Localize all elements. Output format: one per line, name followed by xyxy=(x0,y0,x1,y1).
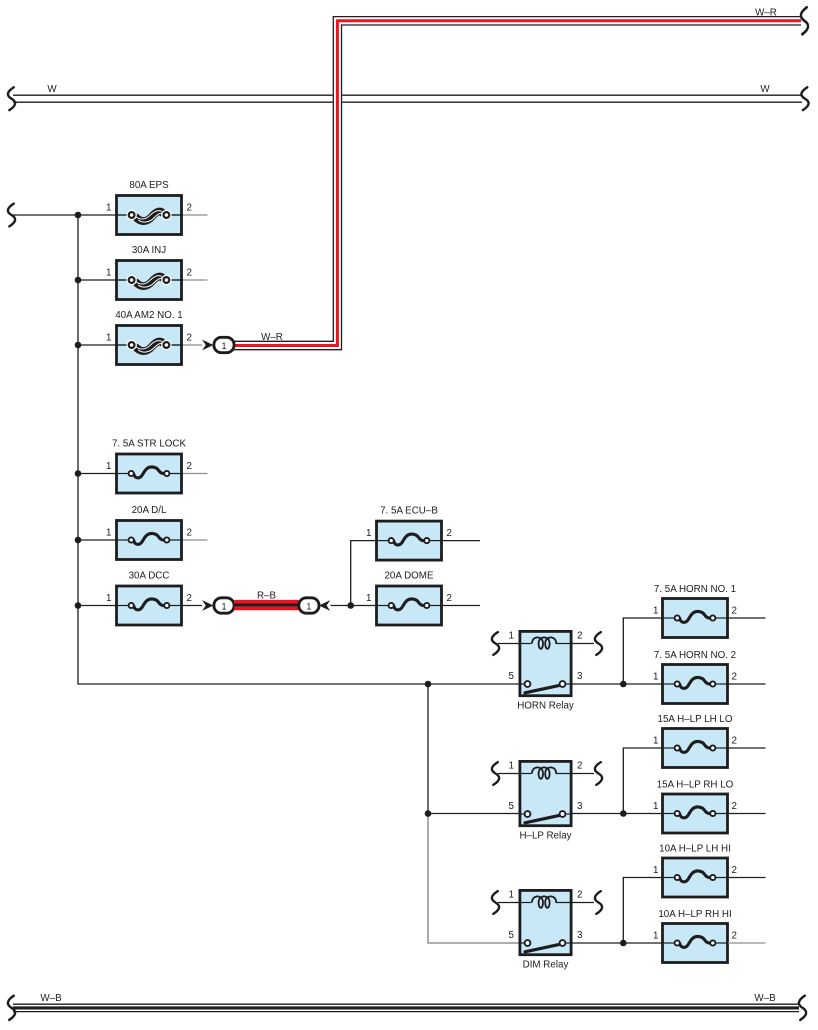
svg-text:3: 3 xyxy=(577,671,583,682)
svg-text:20A D/L: 20A D/L xyxy=(132,505,167,516)
svg-text:30A INJ: 30A INJ xyxy=(132,245,166,256)
svg-text:1: 1 xyxy=(106,203,111,214)
svg-text:1: 1 xyxy=(306,601,311,611)
break right of HORN relay coil xyxy=(595,632,602,655)
break left of DIM relay coil xyxy=(492,891,499,914)
wire R-B striped (red-black-red) xyxy=(234,602,299,609)
svg-text:1: 1 xyxy=(653,672,658,683)
svg-text:1: 1 xyxy=(653,801,658,812)
relay DIM Relay xyxy=(498,890,594,971)
svg-text:2: 2 xyxy=(187,593,192,604)
break left of W wire xyxy=(8,87,15,110)
wire W-R black outline inner xyxy=(234,25,801,350)
fuse 30A DCC xyxy=(106,571,202,626)
node junction feeder at H-LP row xyxy=(425,810,432,817)
fuse 7.5A HORN NO. 2 xyxy=(653,650,765,704)
svg-text:2: 2 xyxy=(732,931,737,942)
svg-text:2: 2 xyxy=(577,761,582,772)
wire AM2 row xyxy=(78,344,115,346)
svg-text:2: 2 xyxy=(187,203,192,214)
svg-text:30A DCC: 30A DCC xyxy=(129,571,170,582)
break left of EPS wire xyxy=(8,204,15,227)
node junction INJ row xyxy=(75,277,82,284)
svg-text:7. 5A ECU–B: 7. 5A ECU–B xyxy=(380,506,438,517)
break left of HORN relay coil xyxy=(492,632,499,655)
wire branch up to HORN NO.1 xyxy=(623,618,662,684)
fuse 15A H-LP LH LO xyxy=(653,714,765,768)
fuse 20A D/L xyxy=(106,505,207,560)
svg-text:1: 1 xyxy=(106,528,111,539)
fusible link 80A EPS xyxy=(106,180,207,235)
svg-text:1: 1 xyxy=(221,601,226,611)
svg-text:R–B: R–B xyxy=(257,591,277,602)
fuse 7.5A STR LOCK xyxy=(106,439,207,494)
svg-text:2: 2 xyxy=(577,890,582,901)
wire H-LP relay pin3 output xyxy=(573,813,663,815)
svg-text:2: 2 xyxy=(577,631,582,642)
connector splice oval 1 (W-R) xyxy=(214,337,234,352)
break left of H-LP relay coil xyxy=(492,762,499,785)
svg-text:H–LP Relay: H–LP Relay xyxy=(519,831,571,842)
svg-text:1: 1 xyxy=(106,461,111,472)
wire feeder vertical to H-LP relay xyxy=(427,684,429,814)
svg-text:15A H–LP LH LO: 15A H–LP LH LO xyxy=(658,714,733,725)
connector arrow out of splice (left-pointing) xyxy=(319,600,330,611)
svg-text:1: 1 xyxy=(653,865,658,876)
svg-text:W–R: W–R xyxy=(755,8,777,19)
node junction DIM fuse branch xyxy=(620,940,627,947)
svg-text:W–B: W–B xyxy=(754,993,776,1004)
wire from splice to DOME xyxy=(331,605,376,607)
node junction EPS row xyxy=(75,212,82,219)
fuse 20A DOME xyxy=(366,571,480,626)
svg-text:7. 5A HORN NO. 1: 7. 5A HORN NO. 1 xyxy=(654,584,736,595)
break right of W-R wire xyxy=(801,7,808,34)
svg-text:10A H–LP LH HI: 10A H–LP LH HI xyxy=(659,844,731,855)
svg-text:1: 1 xyxy=(653,931,658,942)
svg-text:1: 1 xyxy=(509,890,514,901)
node junction HORN fuse branch xyxy=(620,681,627,688)
node junction feeder at HORN row xyxy=(425,681,432,688)
svg-text:1: 1 xyxy=(106,593,111,604)
fusible link 30A INJ xyxy=(106,245,207,300)
node junction H-LP fuse branch xyxy=(620,810,627,817)
svg-text:2: 2 xyxy=(447,593,452,604)
connector splice oval 1 (R-B right) xyxy=(299,598,319,613)
svg-text:15A H–LP RH LO: 15A H–LP RH LO xyxy=(657,780,734,791)
wire W-B bottom bus xyxy=(13,1004,799,1011)
fuse 7.5A HORN NO. 1 xyxy=(653,584,765,638)
wire W-R red core xyxy=(234,21,801,346)
svg-text:2: 2 xyxy=(732,672,737,683)
connector arrow into splice (DCC output) xyxy=(202,600,213,611)
break left of W-B wire xyxy=(8,996,15,1020)
svg-text:10A H–LP RH HI: 10A H–LP RH HI xyxy=(658,909,731,920)
fuse 10A H-LP RH HI xyxy=(653,909,765,963)
fusible link 40A AM2 NO. 1 xyxy=(106,310,202,365)
svg-text:W: W xyxy=(760,84,770,95)
svg-text:5: 5 xyxy=(509,930,515,941)
svg-text:2: 2 xyxy=(187,461,192,472)
svg-text:2: 2 xyxy=(732,606,737,617)
break right of W wire xyxy=(801,87,808,110)
svg-text:1: 1 xyxy=(106,333,111,344)
svg-text:5: 5 xyxy=(509,671,515,682)
svg-text:2: 2 xyxy=(732,865,737,876)
fuse 10A H-LP LH HI xyxy=(653,844,765,898)
svg-text:2: 2 xyxy=(732,736,737,747)
node junction ECU-B branch xyxy=(347,602,354,609)
break right of H-LP relay coil xyxy=(595,762,602,785)
svg-text:2: 2 xyxy=(187,268,192,279)
svg-text:3: 3 xyxy=(577,801,583,812)
wire W-R (white underlay) xyxy=(234,21,801,346)
wire branch up to H-LP LH LO xyxy=(623,748,662,814)
svg-text:W–B: W–B xyxy=(40,993,62,1004)
wire W horizontal top bus xyxy=(13,95,802,102)
wire HORN relay pin3 output xyxy=(573,683,663,685)
wire branch up to ECU-B xyxy=(351,541,375,606)
svg-text:DIM Relay: DIM Relay xyxy=(523,960,569,971)
wire DCC row xyxy=(78,605,115,607)
wire W-R black outline outer xyxy=(234,17,801,342)
node junction AM2 row xyxy=(75,342,82,349)
wire main +B vertical bus xyxy=(78,215,519,684)
wire DIM relay pin3 output xyxy=(573,942,663,944)
wire branch up to H-LP LH HI xyxy=(623,878,662,944)
svg-text:1: 1 xyxy=(366,593,371,604)
wire H-LP relay pin5 xyxy=(428,813,519,815)
svg-text:W: W xyxy=(47,84,57,95)
svg-text:3: 3 xyxy=(577,930,583,941)
wire D/L row xyxy=(78,539,115,541)
fuse 15A H-LP RH LO xyxy=(653,780,765,834)
svg-text:1: 1 xyxy=(509,761,514,772)
wire STR LOCK row xyxy=(78,473,115,475)
svg-text:20A DOME: 20A DOME xyxy=(384,571,433,582)
svg-text:1: 1 xyxy=(653,606,658,617)
svg-text:80A EPS: 80A EPS xyxy=(129,180,169,191)
break right of W-B wire xyxy=(799,996,806,1020)
svg-text:2: 2 xyxy=(732,801,737,812)
connector splice oval 1 (R-B left) xyxy=(214,598,234,613)
relay H-LP Relay xyxy=(498,761,594,842)
fuse 7.5A ECU-B xyxy=(366,506,480,561)
node junction D/L row xyxy=(75,537,82,544)
svg-text:2: 2 xyxy=(187,528,192,539)
wire INJ row xyxy=(78,279,115,281)
svg-text:2: 2 xyxy=(187,333,192,344)
svg-text:1: 1 xyxy=(509,631,514,642)
svg-text:1: 1 xyxy=(221,341,226,351)
svg-text:2: 2 xyxy=(447,528,452,539)
break right of DIM relay coil xyxy=(595,891,602,914)
wire feeder to DIM relay pin5 (gray continuation) xyxy=(428,814,519,944)
node junction STR LOCK row xyxy=(75,470,82,477)
node junction DCC row xyxy=(75,602,82,609)
svg-text:1: 1 xyxy=(106,268,111,279)
wire EPS row input xyxy=(13,214,115,216)
svg-text:5: 5 xyxy=(509,801,515,812)
connector arrow into splice (AM2 output) xyxy=(202,340,213,351)
svg-text:HORN Relay: HORN Relay xyxy=(517,701,574,712)
svg-text:1: 1 xyxy=(366,528,371,539)
svg-text:7. 5A STR LOCK: 7. 5A STR LOCK xyxy=(112,439,187,450)
svg-text:1: 1 xyxy=(653,736,658,747)
relay HORN Relay xyxy=(498,631,594,712)
svg-text:7. 5A HORN NO. 2: 7. 5A HORN NO. 2 xyxy=(654,650,736,661)
svg-text:40A AM2 NO. 1: 40A AM2 NO. 1 xyxy=(115,310,183,321)
svg-text:W–R: W–R xyxy=(261,332,283,343)
